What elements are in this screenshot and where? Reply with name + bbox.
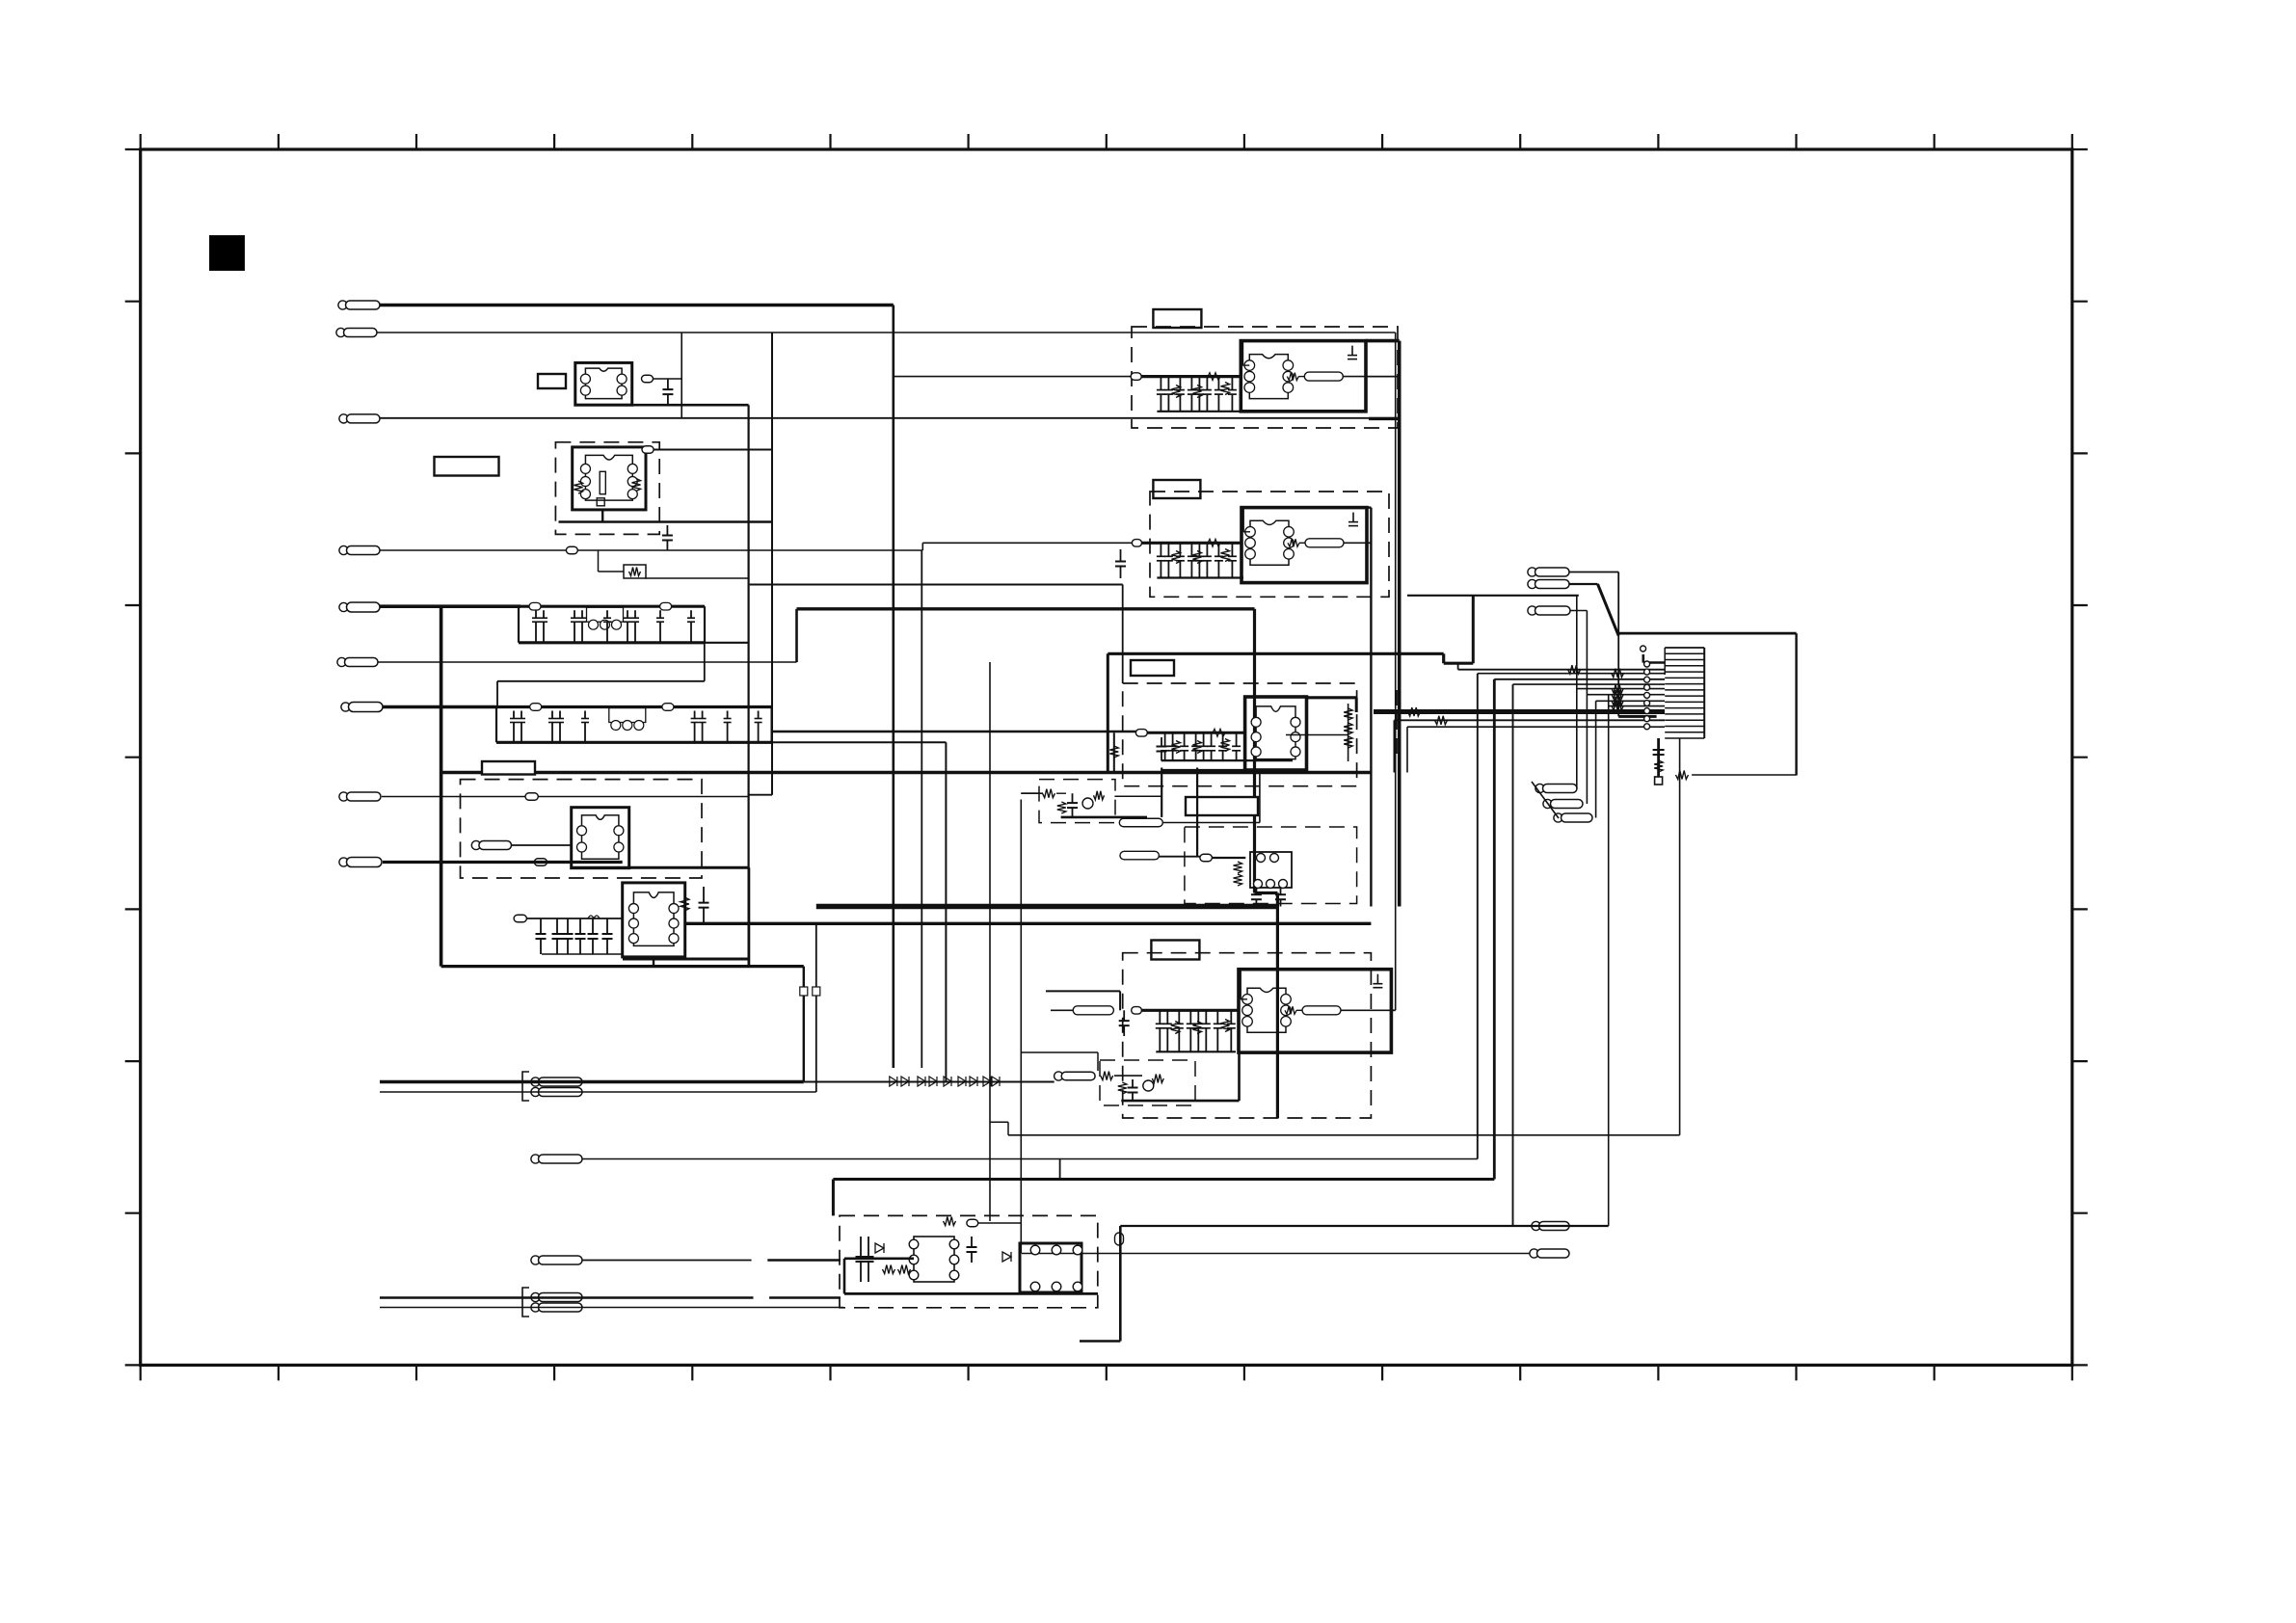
wire module inner rail [844,1258,914,1261]
wire net21 [380,1307,843,1309]
resistor R6b2 [1193,741,1202,754]
IC5 body [914,1237,954,1282]
wire net20b [769,1296,841,1299]
capacitor C6 [1115,549,1126,578]
wire T6 out [1286,734,1348,736]
wire net28 elbow [1618,715,1656,718]
diode bus component 7 [970,1077,977,1086]
wire Q1 rail [1061,816,1147,819]
wire net30b [1051,1009,1073,1011]
transformer T5 [1241,508,1367,583]
resistor R21 [681,897,689,911]
IC5 pin L2 [909,1255,919,1264]
transformer T6 [1245,697,1307,770]
capacitor C13 [1653,741,1665,763]
wire X1 stub down [601,510,603,522]
wire T1 bottom rail [575,404,749,407]
wire net37a [990,1121,1008,1123]
inline resistor R6d [1213,729,1225,736]
capacitor bank T7 [1156,1010,1236,1051]
pill T4 in [1131,373,1141,381]
diode bus component 8 [983,1077,991,1086]
connector CN1 pin circle top [1641,646,1646,652]
connector terminal P20 [1532,1221,1569,1230]
wire X1 top out [654,449,772,451]
connector terminal P1 [338,301,380,309]
diode bus component 9 [992,1077,1000,1086]
diode bus component 5 [944,1077,951,1086]
connector terminal P14 [1528,568,1569,576]
transformer T7 [1239,970,1391,1052]
wire clusterA loop h [497,680,705,682]
wire net23 v1059 [1020,800,1022,1254]
wire net2 [377,332,1396,333]
wire T3 outer bottom [623,958,749,961]
IC5 pin L3 [909,1270,919,1280]
wire net28 v [1617,572,1619,717]
relay pin c [1254,880,1263,889]
wire net26 left v [1107,653,1109,772]
transformer T2 [572,808,629,868]
connector terminal P7 [341,703,383,712]
connector CN1 pin circle 2 [1644,669,1650,675]
resistor R10 [1101,1072,1113,1080]
pill net4 [566,546,577,554]
crystal element [600,471,605,493]
connector terminal P16 [1528,606,1570,615]
inductor FB3 [588,916,600,918]
connector terminal P4 [339,545,380,554]
connector terminal P9 [339,858,382,867]
IC6 pin 5 [1052,1282,1061,1291]
wire connector feed 5 [1577,688,1665,690]
resistor R5c [1221,549,1230,562]
resistor R4a [1172,386,1181,398]
wire bus2 [685,922,1372,925]
connector terminal P8 [339,792,381,801]
wire connector feed 9 [1394,719,1665,721]
pill M1 b [534,859,547,866]
label box IC3 [1131,660,1174,676]
capacitor C3e [588,918,599,954]
capacitor C2 [662,525,673,550]
wire net14 up1 [1512,684,1514,1226]
connector pin terminal square [1655,777,1663,785]
wire T3 in gnd rail [542,953,623,955]
connector terminal P17 [1535,784,1577,792]
label box IC4 [1151,941,1199,960]
wire net19b [767,1259,841,1262]
wire net26 v [1472,596,1475,663]
wire net30 blk4 in [1046,990,1120,992]
wire T3 in [526,918,622,919]
connector CN1 pin circle 5 [1644,692,1650,698]
resistor R6e [1344,708,1352,720]
label box module3 [1186,797,1258,815]
resistor R6f [1344,723,1352,734]
resistor R3 [629,568,641,576]
resistor R5b [1193,551,1202,564]
capacitor bank T4 [1157,377,1243,412]
wire net27 h [1569,583,1598,585]
wire net16 vertical [803,967,805,1082]
connector terminal P21 [1530,1249,1569,1258]
resistor R2 [632,479,641,492]
wire net5b long [797,607,1255,610]
wire net10 thin input blk1 [894,376,1131,378]
connector CN1 pin circle 9 [1644,724,1650,730]
wire feed left 752 v [1406,727,1408,772]
inline resistor R4d [1208,373,1220,381]
connector terminal P13b [531,1303,582,1312]
wire T5 out ext [1367,542,1371,544]
terminal cascade bracket [1532,782,1559,818]
wire net11 v1422 [1370,508,1372,907]
IC6 pin 1 [1030,1245,1040,1255]
capacitor C3a [536,918,547,954]
resistor R12 [898,1265,911,1274]
capacitor C8f [1119,1010,1130,1036]
wire feed left 746 v [1393,720,1395,772]
IC6 pin 4 [1030,1282,1040,1291]
wire net3 [380,417,1400,419]
diode bus component 6 [958,1077,966,1086]
resistor R19 [1435,716,1448,725]
resistor R18 [1654,760,1663,772]
resistor R15 [1612,669,1624,678]
wire net9 left box bottom [441,965,804,968]
dashed box Q1 module [1039,780,1115,823]
connector CN1 pin circle 7 [1644,708,1650,714]
resistor R8 [1043,789,1055,798]
wire net24 v1099 [1059,1159,1061,1180]
connector terminal P10b [531,1087,582,1096]
wire net5b feeder v [795,609,798,662]
pill Q1 out [1119,818,1162,827]
resistor R4c [1221,383,1230,395]
wire Q2 link [1114,1075,1142,1077]
wire T6 bottom ext [1161,769,1306,772]
resistor R1 [574,481,583,493]
wire blk2 top right [1367,506,1371,508]
capacitor bank T5 [1157,543,1243,577]
wire net P8 [382,796,749,798]
connector terminal P3 [339,414,380,423]
dashed box IC2 [1150,492,1389,597]
dashed box bottom module [840,1215,1098,1307]
wire net7c pill to block3 [1147,732,1245,734]
wire conn rect right [1795,633,1797,775]
wire net20 [380,1296,754,1299]
connector CN1 pin circle 1 [1644,661,1650,667]
wire net4 jog [921,543,923,550]
dashed box IC3 [1123,683,1357,786]
wire net5c drop [1122,585,1124,684]
wire net32 d8 left [1021,792,1039,794]
capacitor bank T6 [1161,732,1293,760]
pill T1 out [642,375,654,383]
capacitor C10 [856,1237,867,1282]
wire T1 out [654,378,682,380]
wire net14 up2 [1608,695,1610,1226]
wire net5c mid [750,584,1123,586]
diode bus component 3 [918,1077,925,1086]
connector CN1 pin circle 3 [1644,677,1650,682]
wire net4b to block2 [922,542,1132,544]
pill T5 in [1132,540,1141,547]
resistor R6c [1221,739,1230,752]
wire T6 top ext [1307,696,1357,699]
wire net8 long bus [441,771,1372,774]
resistor R7b2 [1193,1022,1202,1034]
wire T6 top ext v [1355,698,1358,712]
wire net15 [1022,1253,1530,1255]
connector terminal P2 [336,328,377,336]
wire R3 out right [646,577,749,579]
border frame [141,149,2072,1365]
label box K3 [482,761,535,775]
resistor R17 [1676,771,1689,780]
wire blk3 jog v [1276,893,1279,1119]
wire net19 [582,1260,752,1262]
wire blk1 top [1366,339,1400,343]
wire net16 bus bottom [380,1080,804,1083]
transformer T1 [575,362,632,405]
wire net34 relay in [1159,856,1200,858]
wire connector feed 4 [1513,683,1666,685]
relay RY1 frame [1250,852,1292,888]
resistor R11 [883,1265,895,1274]
IC6 pin 6 [1073,1282,1082,1291]
wire Q2 feed h [1021,1051,1098,1053]
inline capsule connector CN t [1115,1233,1124,1245]
wire net16b [804,1081,1055,1083]
wire net26 h [1407,595,1579,597]
diode D2 [1002,1252,1011,1262]
crystal block X1 [573,447,646,510]
wire connector feed 10 [1407,726,1665,728]
relay pin a [1257,854,1266,863]
resistor R6g [1344,736,1352,748]
wire clusterA right v [704,643,706,681]
wire clusterA loop v [496,681,498,707]
wire Q2 bottom rail [1121,1100,1239,1103]
connector CN1 pin circle 8 [1644,716,1650,722]
connector terminal P11 [531,1155,582,1163]
IC5 pin R3 [949,1270,959,1280]
wire connector feed 6 [1587,694,1665,696]
wire conn rect bottom [1692,774,1797,776]
wire T5 in2 [1142,542,1242,545]
wire net27 diag [1598,584,1619,636]
resistor R10b [1118,1082,1127,1094]
diode bus component 4 [929,1077,937,1086]
diode bus component 2 [901,1077,909,1086]
connector terminal P19 [1554,813,1592,822]
resistor R16c [1612,697,1623,705]
label box K2 [435,457,499,476]
connector CN1 comb [1665,648,1704,738]
wire clusterA bottom ext [705,642,749,644]
resistor R23 [1234,874,1242,886]
wire net9 left box left edge [440,607,443,967]
pill relay in2 [1120,851,1159,860]
dashed box module M1 [461,780,703,878]
wire clusterB bottom ext [772,741,947,743]
capacitor C3d [575,918,586,954]
wire net12 up [1477,674,1479,1159]
resistor R9 [1094,791,1105,800]
wire net1 vertical [892,306,894,1069]
connector CN1 pin circle 6 [1644,701,1650,706]
wire net1 top [380,304,894,307]
capacitor C16 [1128,1079,1138,1101]
wire net30 drop [1119,991,1121,1010]
wire T7 bottom stub [1238,1052,1241,1101]
wire net34b [1212,857,1245,859]
capacitor C3b [552,918,563,954]
wire net5 vertical right [1253,609,1256,893]
wire net2 branch vertical [681,333,682,418]
wire net4 vertical [921,550,922,1068]
capacitor C12 [967,1237,977,1263]
IC5 pin R1 [949,1239,959,1249]
wire connector feed 3 [1494,678,1665,680]
wire T6 rail drop2 [1196,768,1198,857]
label box IC1 [1153,309,1201,328]
wire M1 input [512,844,572,846]
inline resistor R5d [1208,539,1220,546]
resistor R6h [1109,746,1118,758]
connector terminal P5 [339,602,380,612]
wire net26 step h [1444,662,1474,665]
wire T7 out ext [1391,1009,1395,1011]
wire net25 stub [1080,1340,1120,1342]
wire net29 v [1586,611,1588,805]
resistor R9b [1057,802,1066,813]
wire T6 left drop [1113,732,1115,772]
wire Q1 out right [1162,822,1260,824]
connector terminal P18 [1543,799,1583,808]
connector terminal P10a [531,1078,582,1086]
wire net12 [582,1158,1478,1160]
pill M1 input [471,840,511,849]
wire T6 rail drop1 [1161,768,1162,817]
resistor R4b [1193,386,1202,398]
resistor R14 [1568,665,1581,674]
transistor Q1 [1082,798,1093,809]
wire R3 drop [598,550,600,572]
diode bus component 1 [890,1077,897,1086]
IC6 pin 3 [1073,1245,1082,1255]
wire clusterB bottom out [945,742,947,1081]
wire net37b [1007,1122,1009,1135]
terminal bracket P10 [522,1072,529,1101]
capacitor C1 [662,379,673,405]
wire connector feed 8 [1609,705,1665,707]
wire net37 [1008,1134,1680,1136]
capacitor C3c [563,918,574,954]
wire Q2 feed v [1097,1052,1099,1071]
wire net29 p16 h [1570,610,1587,612]
wire T7 in2 [1141,1009,1239,1012]
pill net P8 [525,793,538,801]
wire connector feed 2 [1478,673,1665,675]
pill T3 in [514,915,526,922]
pill X1 top out [642,446,654,454]
wire net2b vertical [771,333,773,795]
wire connector feed 7 [1596,700,1665,702]
IC6 pin 2 [1052,1245,1061,1255]
resistor R16d [1612,702,1623,710]
wire R3 left [599,571,625,572]
resistor R6a [1172,741,1181,754]
resistor R16a [1612,684,1623,693]
wire net26 step v [1442,653,1445,663]
wire net3 vertical [747,405,749,966]
wire T4 out ext [1366,376,1400,378]
pill relay in [1200,854,1213,862]
resistor R7c2 [1221,1020,1230,1032]
label box IC2 [1153,480,1200,498]
wire net18 vertical [815,923,817,1092]
resistor R7a [1171,1022,1180,1034]
wire net28 p14 [1569,572,1618,573]
transformer T3 [623,883,685,957]
capacitor C7f [1157,737,1167,760]
IC5 pin R2 [949,1255,959,1264]
wire net7 to clusterB [383,705,496,709]
resistor R5a [1172,551,1181,564]
frame tick marks [125,134,2088,1380]
resistor R10c [1152,1075,1163,1083]
relay pin d [1267,880,1275,889]
resistor R13 [944,1217,956,1226]
capacitor C4 [699,887,709,923]
wire conn rect top [1619,632,1797,635]
wire T6 res col v [1348,704,1349,761]
wire net3b thick [1369,417,1400,420]
dashed box relay [1185,827,1357,904]
wire conn drop v [1657,738,1660,777]
capacitor C14 [1251,888,1262,907]
wire net9 right edge [748,867,751,966]
connector CN1 pin circle 4 [1644,684,1650,690]
resistor R22 [1234,862,1242,873]
revision mark black square [210,236,245,271]
wire net22 v1027 [989,662,991,1221]
wire net P9 [383,861,623,864]
wire net4 [380,549,922,551]
IC5 pin L1 [909,1239,919,1249]
diode D1 [875,1243,884,1253]
wire net36 y1269 [978,1222,1022,1224]
pill Q2 in [1055,1072,1096,1080]
capacitor C15 [1275,888,1286,907]
wire cascade v1 [1576,596,1578,788]
wire feed corner v2 [1457,663,1459,670]
crystal pad square [597,498,604,506]
wire module bottom rail [571,866,749,869]
resistor R16b [1612,690,1623,699]
wire blk1 right vertical [1398,341,1402,907]
wire T3 bottom stub [653,959,654,967]
capacitor C3f [602,918,613,954]
wire blk3 jog h [1255,891,1278,894]
wire net17 [380,1091,816,1093]
label box K1 [538,374,566,388]
wire conn pin top v [1642,654,1645,663]
